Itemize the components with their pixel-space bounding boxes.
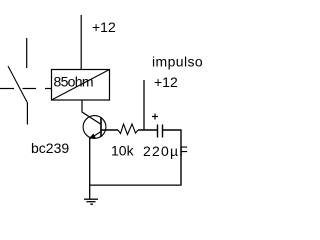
svg-text:10k: 10k <box>111 143 135 159</box>
wire: right rail down <box>180 130 182 186</box>
switch S1 blade <box>8 66 28 103</box>
transistor Q1 base bar <box>100 117 102 137</box>
relay coil K1 box <box>52 70 110 101</box>
switch S1 top terminal <box>26 38 28 68</box>
mechanical link (dashed) from switch to coil <box>0 88 52 90</box>
svg-text:+12: +12 <box>92 19 116 35</box>
transistor Q1 emitter arrow <box>89 134 96 139</box>
wire: emitter down to ground <box>89 139 91 200</box>
relay coil diagonal <box>52 70 110 101</box>
wire: bottom rail <box>90 184 182 186</box>
switch S1 bottom terminal <box>26 103 28 125</box>
transistor Q1 emitter <box>89 132 101 140</box>
capacitor C1 polarity plus <box>152 114 158 120</box>
resistor R1 zigzag <box>118 124 138 135</box>
wire: capacitor to right rail <box>163 129 182 131</box>
capacitor C1 left plate <box>157 125 159 138</box>
wire: resistor to capacitor <box>138 129 157 131</box>
wire: +12 supply down to relay coil <box>80 15 82 70</box>
svg-text:impulso: impulso <box>152 54 203 70</box>
capacitor C1 right plate <box>162 125 164 138</box>
svg-text:bc239: bc239 <box>31 140 69 156</box>
svg-text:+12: +12 <box>154 74 178 90</box>
wire: base lead <box>102 129 119 131</box>
wire: coil to transistor collector <box>82 100 101 124</box>
transistor Q1 body circle <box>83 116 106 139</box>
ground <box>84 199 98 204</box>
wire: impulso +12 down to node <box>143 80 145 131</box>
svg-text:85ohm: 85ohm <box>54 74 93 90</box>
svg-text:220µF: 220µF <box>143 143 189 159</box>
